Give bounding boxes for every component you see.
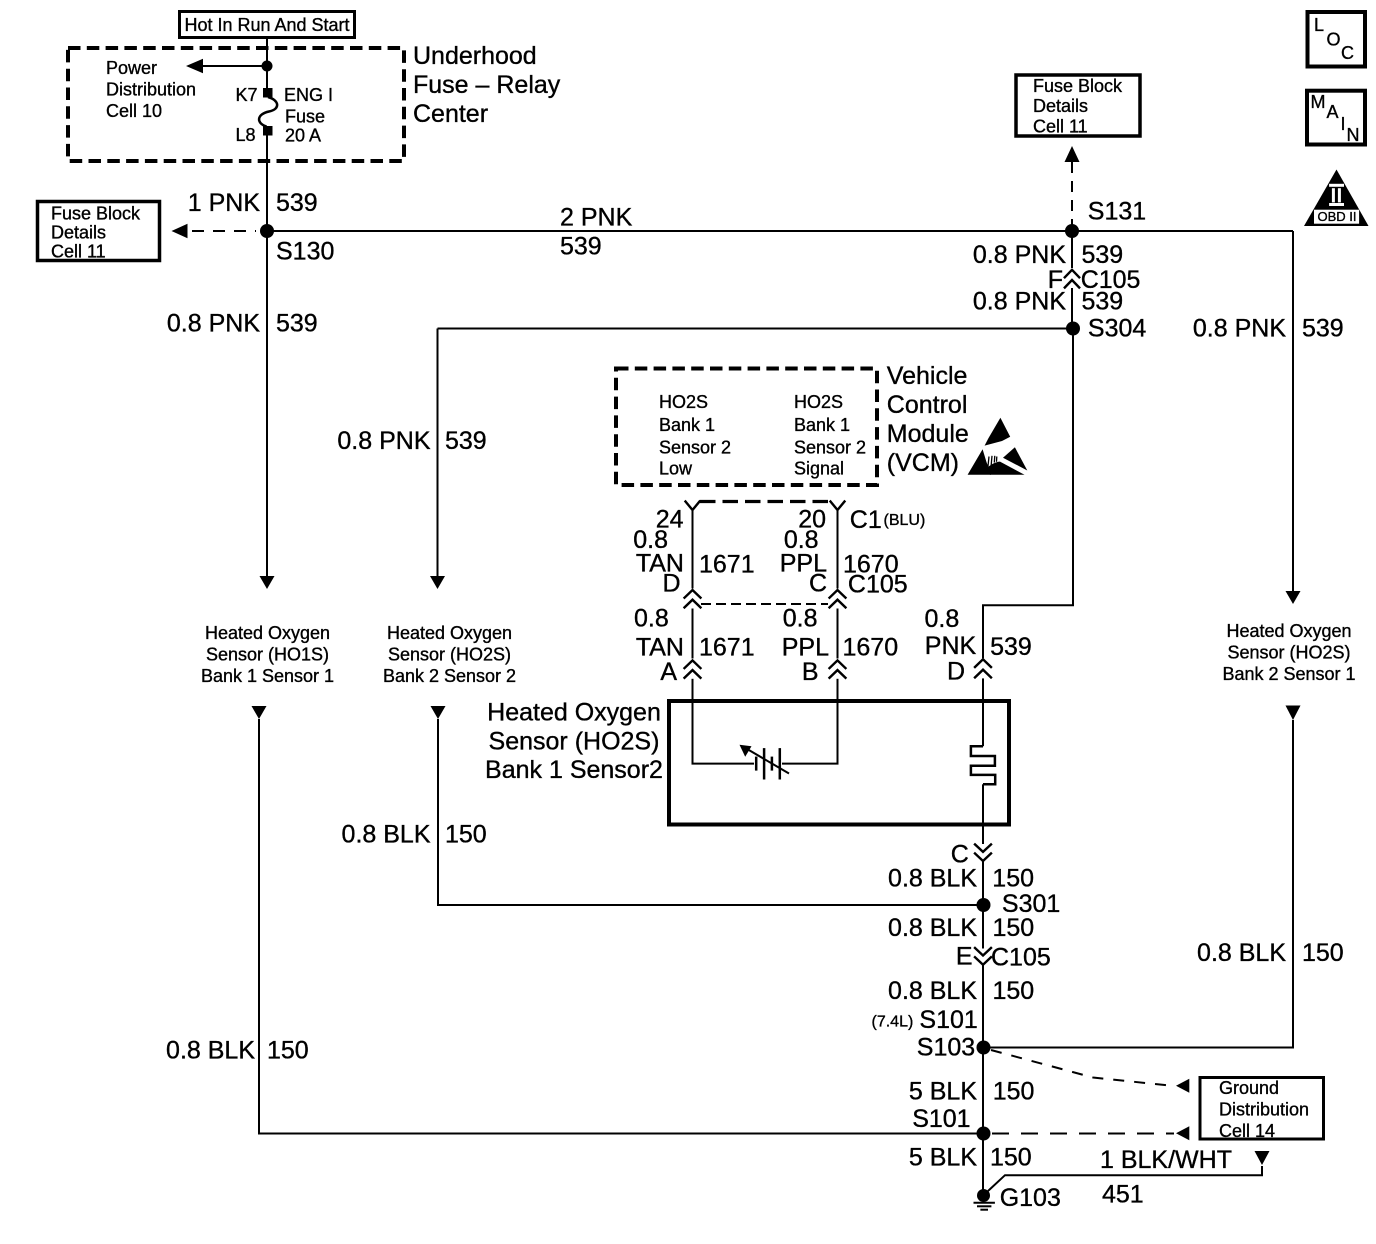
svg-text:Fuse – Relay: Fuse – Relay: [413, 71, 561, 99]
wire: hot feed vertical top: [266, 39, 268, 88]
svg-text:G103: G103: [1000, 1184, 1061, 1212]
wire: F C105 vertical between S131 and S304: [1071, 231, 1073, 268]
svg-text:Bank 1: Bank 1: [794, 415, 850, 435]
wire: pin 20 down: [837, 510, 839, 589]
Fuse Block Details Cell 11 box (top right): [1016, 75, 1140, 136]
svg-text:0.8 PNK: 0.8 PNK: [337, 427, 430, 455]
node S301: [977, 898, 991, 912]
wire: PNK jog from S304 down to D: [983, 329, 1073, 659]
svg-text:2 PNK: 2 PNK: [560, 204, 633, 232]
svg-text:(VCM): (VCM): [887, 449, 959, 477]
svg-text:Heated Oxygen: Heated Oxygen: [487, 699, 661, 727]
wire start triangles (down): [252, 706, 267, 719]
svg-text:150: 150: [993, 977, 1035, 1005]
svg-text:HO2S: HO2S: [659, 392, 708, 412]
sensing cell: wire A down and right: [693, 701, 755, 764]
svg-text:Sensor (HO2S): Sensor (HO2S): [388, 645, 511, 665]
svg-text:150: 150: [990, 1144, 1032, 1172]
svg-text:150: 150: [993, 914, 1035, 942]
svg-text:150: 150: [993, 1078, 1035, 1106]
dashed arrow S103 to ground distribution: [991, 1050, 1174, 1086]
svg-text:Distribution: Distribution: [106, 80, 196, 100]
svg-text:C105: C105: [848, 571, 908, 599]
wire: 1 BLK/WHT 451: [988, 1166, 1262, 1191]
svg-text:B: B: [802, 658, 819, 686]
node S101: [977, 1127, 991, 1141]
variable arrow across cell: [745, 748, 789, 774]
svg-text:539: 539: [276, 189, 318, 217]
svg-text:0.8 BLK: 0.8 BLK: [888, 914, 977, 942]
svg-text:0.8 PNK: 0.8 PNK: [973, 288, 1066, 316]
wire: S301 to E: [982, 905, 984, 949]
svg-text:K7: K7: [235, 85, 257, 105]
svg-text:HO2S: HO2S: [794, 392, 843, 412]
node S103: [977, 1041, 991, 1055]
svg-text:Low: Low: [659, 459, 693, 479]
sensing cell right wire to B: [782, 701, 838, 764]
ground symbol: [974, 1202, 995, 1204]
svg-text:O: O: [1327, 30, 1341, 50]
wire: long horizontal 2 PNK 539: [267, 230, 1293, 232]
svg-text:20 A: 20 A: [285, 126, 321, 146]
dashed arrow S131 up to fuse block details: [1071, 162, 1073, 226]
svg-text:539: 539: [445, 427, 487, 455]
svg-text:150: 150: [1302, 939, 1344, 967]
svg-text:Hot In Run And Start: Hot In Run And Start: [184, 15, 349, 35]
svg-text:5 BLK: 5 BLK: [909, 1144, 977, 1172]
svg-text:0.8: 0.8: [634, 605, 669, 633]
svg-text:Heated Oxygen: Heated Oxygen: [1226, 621, 1351, 641]
svg-text:L: L: [1314, 15, 1324, 35]
heater element: wire D down: [982, 701, 984, 746]
wire down to S301: [982, 862, 984, 906]
svg-text:C1: C1: [850, 506, 882, 534]
svg-text:451: 451: [1102, 1181, 1144, 1209]
svg-text:S304: S304: [1088, 315, 1146, 343]
MAIN box: [1307, 91, 1365, 145]
node S304: [1066, 322, 1080, 336]
svg-text:150: 150: [267, 1037, 309, 1065]
svg-text:Cell 11: Cell 11: [51, 242, 106, 262]
wire: HO2S b2s1 ground lead: [990, 720, 1293, 1048]
node G103: [977, 1189, 990, 1202]
ESD symbol: [985, 418, 1011, 446]
svg-text:(BLU): (BLU): [884, 512, 926, 529]
wire: S304 horizontal left: [438, 328, 1074, 330]
svg-text:D: D: [947, 658, 965, 686]
svg-text:539: 539: [1302, 315, 1344, 343]
connector C105 chevrons up (D / C): [685, 590, 701, 598]
svg-text:Signal: Signal: [794, 459, 844, 479]
svg-text:Bank 1: Bank 1: [659, 415, 715, 435]
svg-text:OBD II: OBD II: [1318, 209, 1357, 224]
wire: A into box: [692, 679, 694, 701]
svg-text:Heated Oxygen: Heated Oxygen: [205, 623, 330, 643]
svg-text:539: 539: [1082, 241, 1124, 269]
svg-text:E: E: [956, 943, 973, 971]
Ground Distribution Cell 14 box: [1200, 1078, 1324, 1140]
svg-text:539: 539: [990, 633, 1032, 661]
svg-text:D: D: [663, 570, 681, 598]
wire: B into box: [837, 679, 839, 701]
svg-text:Module: Module: [887, 420, 969, 448]
LOC box: [1308, 12, 1366, 67]
svg-text:A: A: [660, 658, 677, 686]
svg-text:C: C: [809, 570, 827, 598]
svg-text:0.8 BLK: 0.8 BLK: [888, 977, 977, 1005]
connector E C105 chevrons down: [975, 948, 991, 956]
svg-text:S101: S101: [919, 1006, 977, 1034]
svg-text:M: M: [1311, 92, 1326, 112]
svg-text:Sensor 2: Sensor 2: [794, 438, 866, 458]
svg-text:Fuse Block: Fuse Block: [1033, 76, 1123, 96]
svg-text:S101: S101: [912, 1105, 970, 1133]
svg-text:0.8 BLK: 0.8 BLK: [1197, 939, 1286, 967]
wire: S130 down to HO1S arrow: [266, 231, 268, 577]
svg-text:539: 539: [1082, 288, 1124, 316]
svg-text:S130: S130: [276, 238, 334, 266]
svg-text:Distribution: Distribution: [1219, 1099, 1309, 1119]
svg-text:Bank 2 Sensor 2: Bank 2 Sensor 2: [383, 666, 516, 686]
Hot In Run And Start box: [180, 12, 355, 38]
node S131: [1065, 224, 1079, 238]
C105 dashed line: [701, 603, 828, 605]
svg-text:Center: Center: [413, 100, 488, 128]
wire: heater return below box: [982, 825, 984, 845]
node S130: [260, 224, 274, 238]
svg-text:0.8: 0.8: [925, 605, 960, 633]
Underhood Fuse-Relay Center dashed box: [68, 48, 404, 161]
svg-text:0.8 BLK: 0.8 BLK: [342, 821, 431, 849]
svg-text:Heated Oxygen: Heated Oxygen: [387, 623, 512, 643]
connector C1 pins (Y symbols): [686, 502, 700, 511]
sensing cell bars: [755, 757, 758, 771]
wire: HO1S ground lead: [259, 719, 977, 1134]
svg-text:Cell 11: Cell 11: [1033, 117, 1088, 137]
svg-text:Sensor 2: Sensor 2: [659, 438, 731, 458]
svg-text:1 PNK: 1 PNK: [188, 189, 261, 217]
svg-text:ENG I: ENG I: [284, 85, 333, 105]
svg-text:L8: L8: [235, 125, 255, 145]
wire: S103 to S101: [982, 1048, 984, 1134]
VCM dashed box: [616, 369, 877, 486]
svg-text:539: 539: [560, 233, 602, 261]
connector F C105 chevrons up: [1065, 270, 1079, 278]
wire: E to S103: [982, 965, 984, 1047]
svg-text:150: 150: [992, 865, 1034, 893]
svg-text:0.8 BLK: 0.8 BLK: [166, 1037, 255, 1065]
svg-text:I: I: [1341, 114, 1346, 134]
svg-text:Bank 1 Sensor 1: Bank 1 Sensor 1: [201, 666, 334, 686]
svg-text:1671: 1671: [699, 551, 755, 579]
svg-text:0.8: 0.8: [783, 605, 818, 633]
wire: TAN 1671 lower: [692, 609, 694, 659]
svg-text:N: N: [1347, 125, 1360, 145]
wire: right vertical 0.8 PNK 539 down to HO2S bank2 sensor1: [1292, 231, 1294, 592]
svg-text:Vehicle: Vehicle: [887, 362, 968, 390]
node: junction dot in underhood box: [262, 61, 273, 72]
wire: pin 24 down: [692, 510, 694, 589]
svg-text:5 BLK: 5 BLK: [909, 1078, 977, 1106]
svg-text:S103: S103: [917, 1034, 975, 1062]
svg-text:Power: Power: [106, 58, 157, 78]
HO2S sensor box: [669, 701, 1009, 825]
OBD II triangle: [1304, 170, 1369, 227]
wire: HO2S b2s2 ground lead: [438, 719, 977, 905]
svg-text:1671: 1671: [699, 634, 755, 662]
fuse ENG I: terminal squares and s-curve: [263, 88, 273, 98]
svg-text:Sensor (HO2S): Sensor (HO2S): [489, 728, 660, 756]
svg-text:PNK: PNK: [925, 632, 977, 660]
wire: arrow to power distribution: [200, 65, 267, 67]
sensor pin chevrons A / B / D: [685, 660, 701, 668]
svg-text:Fuse Block: Fuse Block: [51, 204, 141, 224]
svg-text:0.8 PNK: 0.8 PNK: [973, 241, 1066, 269]
svg-text:(7.4L): (7.4L): [872, 1014, 914, 1031]
wire: left branch down to HO2S bank2 sensor2: [437, 329, 439, 578]
svg-text:Details: Details: [51, 223, 106, 243]
svg-text:Control: Control: [887, 391, 968, 419]
wire: fuse output down to S130: [266, 136, 268, 232]
svg-text:A: A: [1327, 102, 1339, 122]
svg-text:150: 150: [445, 821, 487, 849]
svg-text:Cell 14: Cell 14: [1219, 1121, 1275, 1141]
svg-text:Fuse: Fuse: [285, 107, 325, 127]
svg-text:C: C: [1341, 43, 1354, 63]
svg-text:S131: S131: [1088, 198, 1146, 226]
dashed arrow S101 to ground distribution: [992, 1133, 1174, 1135]
svg-text:Details: Details: [1033, 96, 1088, 116]
svg-text:1670: 1670: [843, 634, 899, 662]
svg-text:Sensor (HO2S): Sensor (HO2S): [1227, 643, 1350, 663]
wire: PPL 1670 lower: [837, 609, 839, 659]
Fuse Block Details Cell 11 box (left): [38, 202, 160, 261]
svg-text:Bank 1 Sensor2: Bank 1 Sensor2: [485, 756, 663, 784]
svg-text:Sensor (HO1S): Sensor (HO1S): [206, 645, 329, 665]
svg-text:Ground: Ground: [1219, 1078, 1279, 1098]
wire: S101 to G103: [982, 1134, 984, 1196]
svg-text:1 BLK/WHT: 1 BLK/WHT: [1100, 1146, 1232, 1174]
svg-text:Cell 10: Cell 10: [106, 101, 162, 121]
svg-text:Underhood: Underhood: [413, 42, 537, 70]
svg-text:539: 539: [276, 310, 318, 338]
svg-text:0.8 PNK: 0.8 PNK: [167, 310, 260, 338]
dashed arrow S130 to fuse block details: [192, 230, 256, 232]
C1 dashed line: [700, 500, 830, 503]
svg-text:Bank 2 Sensor 1: Bank 2 Sensor 1: [1222, 664, 1355, 684]
connector C chevrons down: [975, 844, 991, 852]
svg-text:0.8 BLK: 0.8 BLK: [888, 865, 977, 893]
svg-text:C105: C105: [991, 944, 1051, 972]
svg-text:0.8 PNK: 0.8 PNK: [1193, 315, 1286, 343]
